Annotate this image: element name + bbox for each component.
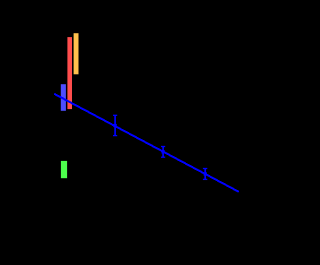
error bar point 1 vertical — [114, 115, 116, 135]
error bar point 3 top cap — [203, 168, 207, 170]
orange bar — [74, 33, 79, 74]
error bar point 2 top cap — [161, 146, 165, 148]
blue trend line — [54, 94, 239, 192]
red bar — [67, 37, 72, 109]
data marker point 2 — [162, 150, 165, 153]
error bar point 1 top cap — [113, 114, 117, 116]
error bar point 3 bottom cap — [203, 178, 207, 180]
green bar — [61, 161, 67, 178]
error bar point 3 vertical — [204, 169, 206, 180]
data marker point 3 — [204, 172, 207, 175]
error bar point 2 bottom cap — [161, 156, 165, 158]
data marker point 1 — [114, 124, 117, 127]
error bar point 2 vertical — [162, 147, 164, 158]
blue bar — [61, 84, 66, 111]
error bar point 1 bottom cap — [113, 135, 117, 137]
